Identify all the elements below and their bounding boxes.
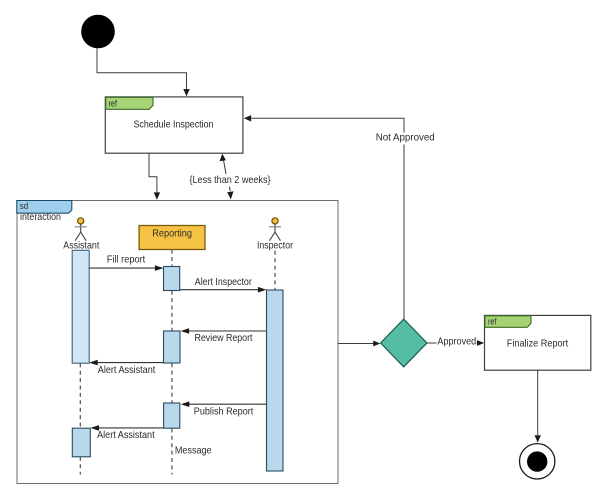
activation Inspector <box>267 290 284 471</box>
wire Schedule bottom to sd frame top <box>149 154 157 193</box>
svg-text:Message: Message <box>175 444 212 456</box>
svg-text:ref: ref <box>109 98 118 108</box>
ref box Finalize Report <box>485 315 591 370</box>
wire Finalize Report to final node <box>537 370 539 435</box>
sd interaction frame <box>17 201 338 484</box>
svg-text:Fill report: Fill report <box>107 254 145 266</box>
svg-text:Alert Inspector: Alert Inspector <box>195 276 252 288</box>
lifeline Reporting <box>171 250 173 475</box>
svg-text:Schedule Inspection: Schedule Inspection <box>134 119 214 131</box>
svg-text:Alert Assistant: Alert Assistant <box>97 429 155 441</box>
actor Inspector <box>269 218 281 241</box>
initial node <box>82 15 115 48</box>
activation Reporting 3 <box>164 403 180 428</box>
message Alert Inspector <box>180 289 259 291</box>
final node <box>520 444 555 479</box>
svg-text:Not Approved: Not Approved <box>376 132 435 144</box>
activation Reporting 1 <box>164 267 180 291</box>
actor Assistant <box>75 218 87 241</box>
message Publish Report <box>188 403 266 405</box>
message Fill report <box>89 267 156 269</box>
svg-text:Review Report: Review Report <box>195 332 253 344</box>
message Review Report <box>188 330 267 332</box>
activation Assistant 2 <box>72 428 90 457</box>
ref tab Schedule <box>106 97 153 109</box>
wire initial to Schedule Inspection <box>97 48 187 89</box>
svg-text:interaction: interaction <box>20 211 61 223</box>
lifeline Inspector <box>274 251 276 290</box>
activation Assistant 1 <box>72 250 89 363</box>
wire constraint {Less than 2 weeks} double arrow <box>223 159 226 175</box>
svg-text:Finalize Report: Finalize Report <box>507 338 568 350</box>
activation Reporting 2 <box>164 331 181 363</box>
decision diamond <box>381 319 427 367</box>
ref tab Finalize <box>485 316 531 328</box>
sd tab <box>17 201 72 214</box>
wire Not Approved (diamond top to Schedule right) <box>252 118 405 319</box>
svg-text:Alert Assistant: Alert Assistant <box>98 364 156 376</box>
svg-text:Approved: Approved <box>437 335 476 347</box>
message Alert Assistant 1 <box>97 362 164 364</box>
svg-text:Publish Report: Publish Report <box>194 406 254 418</box>
object Reporting <box>139 226 205 250</box>
wire Approved (diamond to Finalize Report) <box>427 342 478 344</box>
svg-text:Assistant: Assistant <box>63 239 99 251</box>
lifeline Assistant <box>79 363 81 474</box>
svg-text:Reporting: Reporting <box>152 228 192 240</box>
message Alert Assistant 2 <box>98 427 164 429</box>
svg-text:{Less than 2 weeks}: {Less than 2 weeks} <box>190 174 271 186</box>
svg-text:ref: ref <box>488 317 497 327</box>
ref box Schedule Inspection <box>105 97 243 153</box>
svg-text:Inspector: Inspector <box>257 239 293 251</box>
wire frame to decision <box>338 343 374 345</box>
